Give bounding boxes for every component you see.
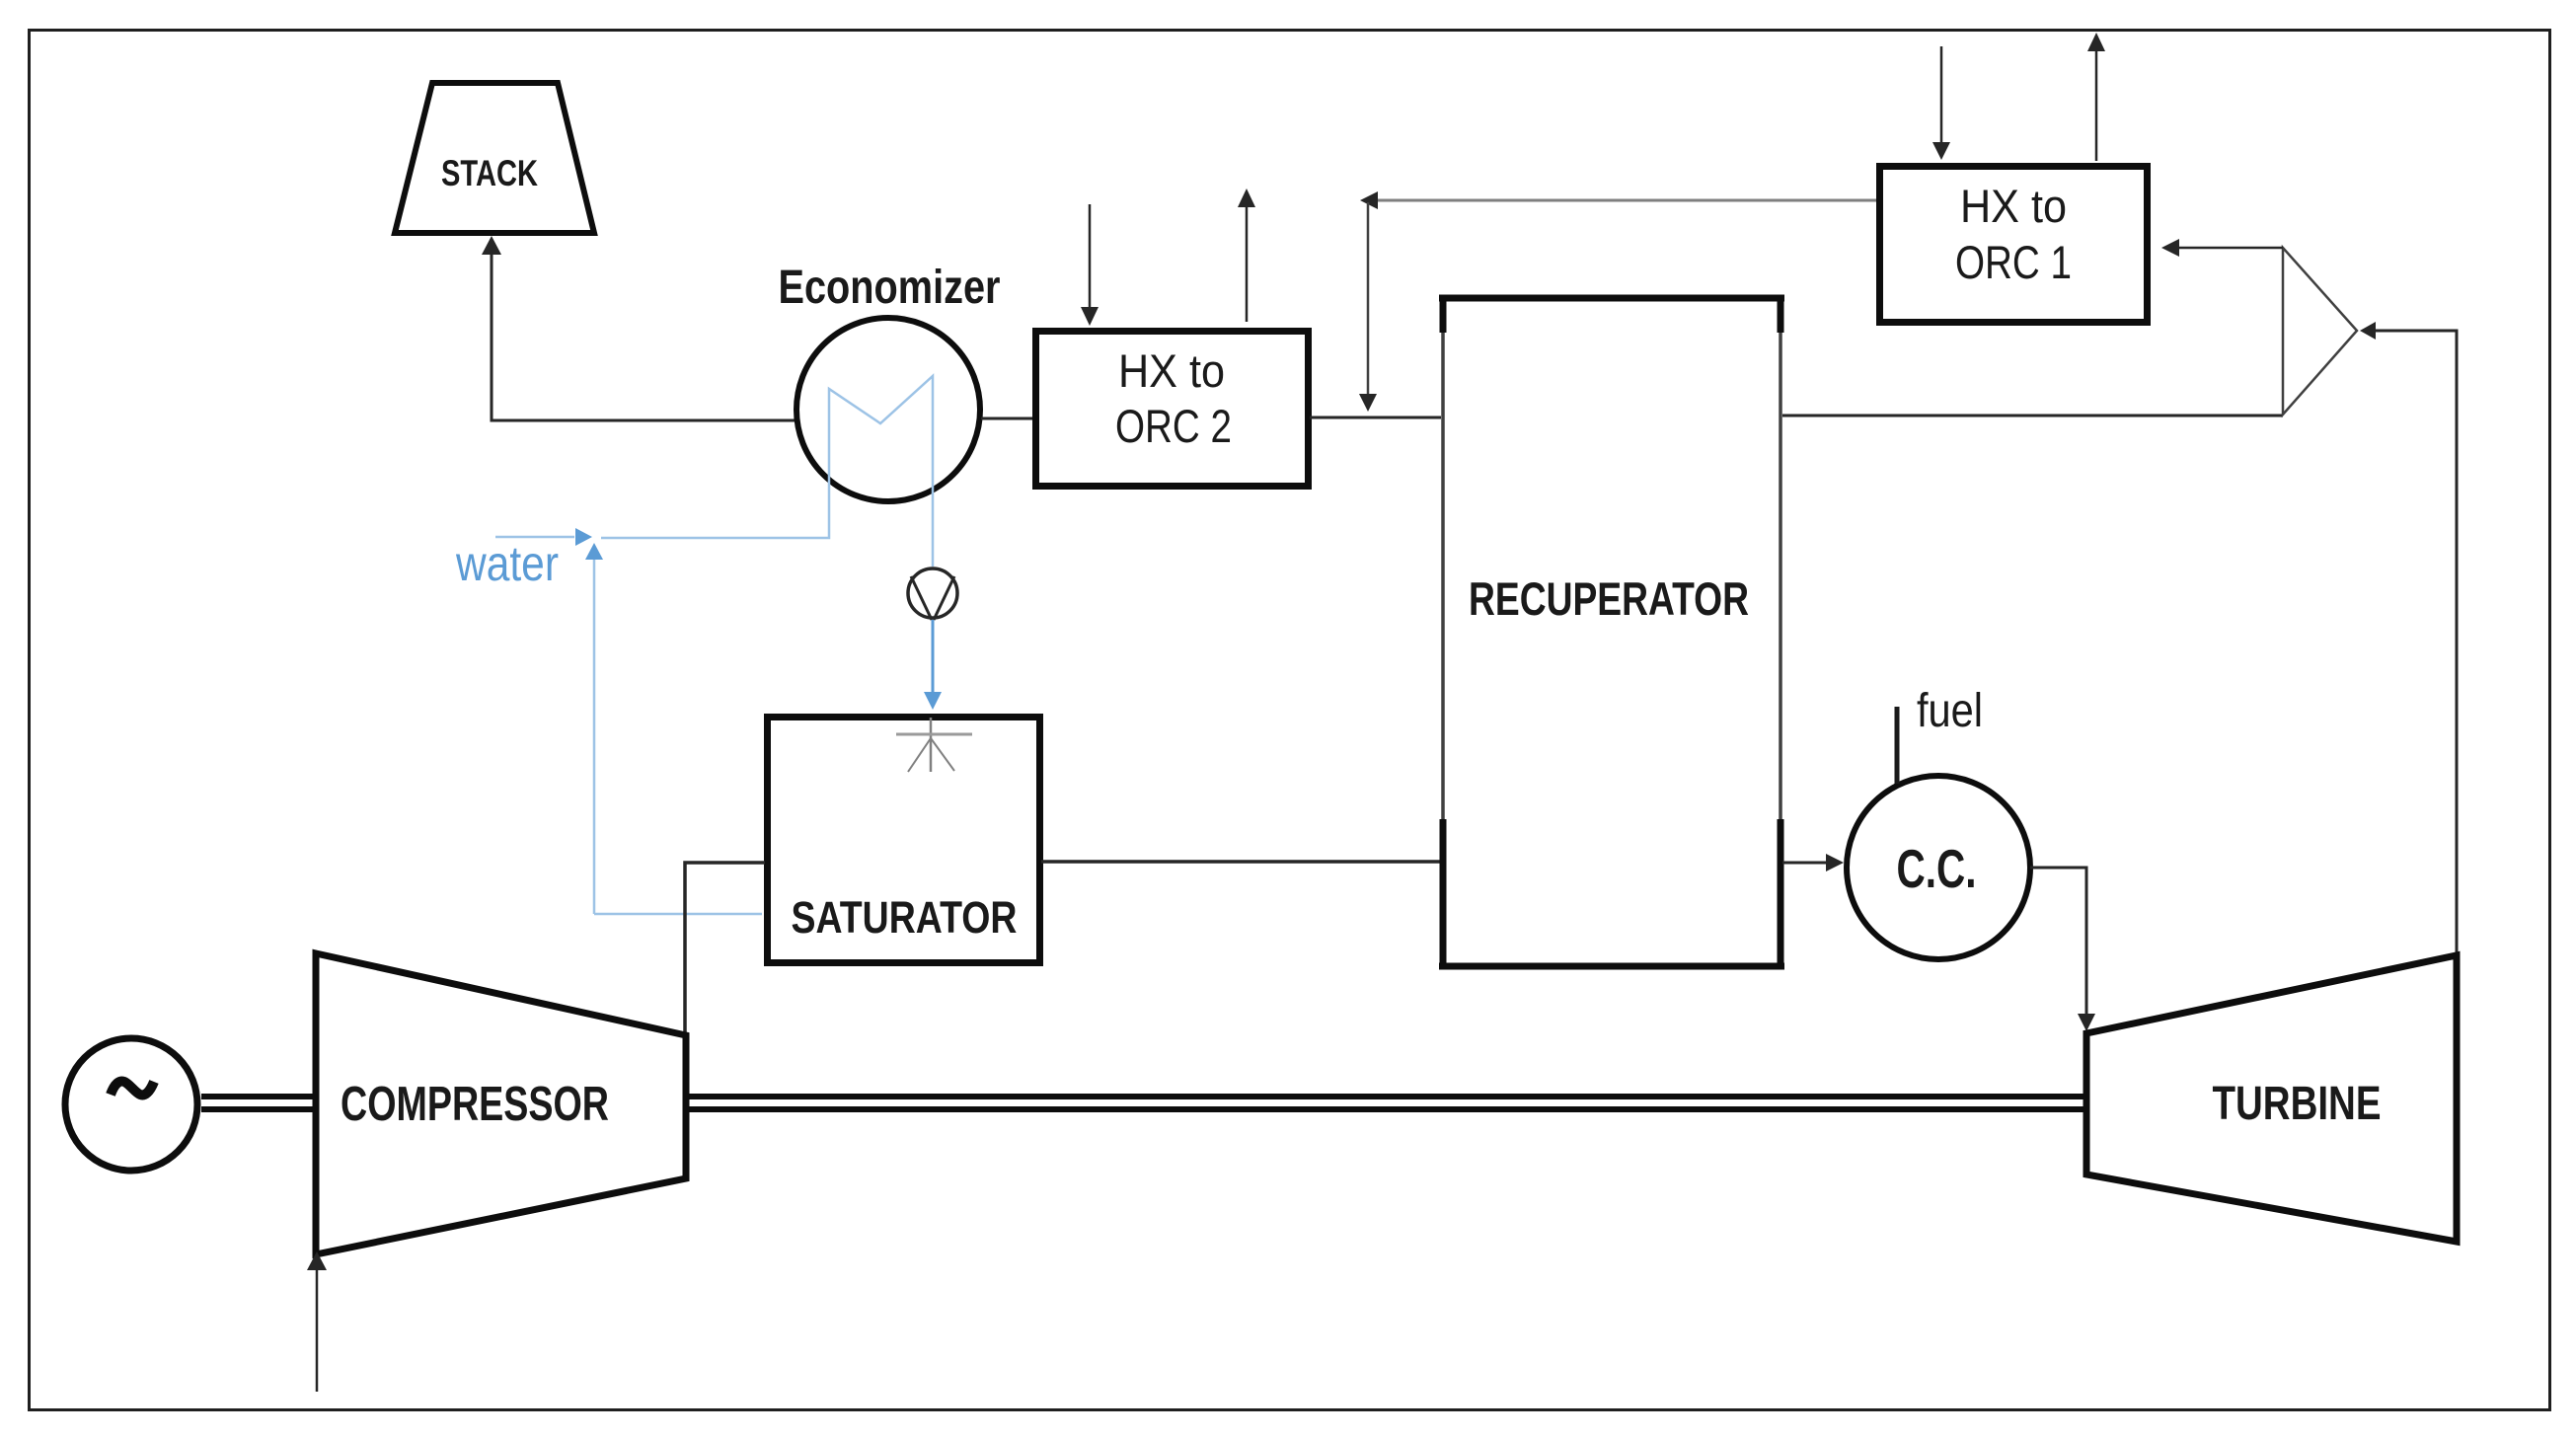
svg-text:SATURATOR: SATURATOR xyxy=(792,892,1018,943)
HX to ORC 2 (box) xyxy=(1036,332,1309,487)
arrow recuperator to C.C. xyxy=(1782,854,1844,871)
label fuel xyxy=(1917,685,1983,737)
turbine exhaust duct xyxy=(2360,322,2457,953)
arrow water inlet xyxy=(575,528,592,546)
generator (circle with ~) xyxy=(65,1038,197,1171)
wire C.C. to turbine xyxy=(2030,868,2095,1031)
arrow ORC1 cold in xyxy=(1932,46,1950,160)
arrow into stack xyxy=(482,236,501,255)
svg-text:STACK: STACK xyxy=(441,153,538,193)
compressor (trapezoid) xyxy=(316,953,686,1254)
label water xyxy=(455,536,559,591)
wire saturator to recuperator xyxy=(1041,860,1440,864)
spray nozzle xyxy=(896,718,972,772)
HX to ORC 1 (box) xyxy=(1880,167,2148,323)
water riser xyxy=(593,557,596,914)
stack (trapezoid) xyxy=(395,83,594,233)
turbine (trapezoid) xyxy=(2086,955,2457,1242)
svg-text:Economizer: Economizer xyxy=(779,262,1001,314)
pump outlet line xyxy=(932,620,935,693)
arrow into saturator spray xyxy=(924,692,942,710)
wire economizer to stack riser xyxy=(492,254,796,420)
wire compressor outlet to saturator xyxy=(685,863,765,1032)
shaft generator-compressor xyxy=(201,1097,318,1109)
air inlet arrow xyxy=(307,1251,327,1392)
wire recuperator to splitter xyxy=(1782,415,2283,417)
arrow up at riser top xyxy=(585,543,603,560)
water tube through economizer (light blue M) xyxy=(601,376,933,567)
C.C. combustion chamber (circle) xyxy=(1847,776,2030,959)
arrow left at corner xyxy=(1360,191,1378,209)
svg-text:ORC 1: ORC 1 xyxy=(1955,236,2072,288)
vertical drop from HX ORC 1 return xyxy=(1359,202,1377,412)
svg-text:COMPRESSOR: COMPRESSOR xyxy=(341,1078,609,1131)
svg-text:HX to: HX to xyxy=(1960,180,2067,232)
return line from HX ORC 1 (gray) xyxy=(1376,199,1878,202)
economizer (circle) xyxy=(779,262,1001,501)
splitter (triangle) xyxy=(2283,248,2357,415)
arrow ORC2 cold out xyxy=(1238,189,1255,322)
arrow ORC1 cold out xyxy=(2087,33,2105,161)
svg-text:RECUPERATOR: RECUPERATOR xyxy=(1469,572,1749,625)
svg-text:C.C.: C.C. xyxy=(1897,838,1977,899)
svg-text:ORC 2: ORC 2 xyxy=(1115,400,1232,452)
arrow ORC2 cold in xyxy=(1081,204,1099,326)
shaft compressor-turbine xyxy=(688,1097,2084,1109)
svg-text:TURBINE: TURBINE xyxy=(2213,1078,2382,1130)
fuel line xyxy=(1895,707,1900,784)
wire HX ORC 2 to recuperator xyxy=(1310,417,1441,419)
svg-text:water: water xyxy=(455,536,559,591)
recuperator (box) xyxy=(1439,295,1784,969)
wire splitter to HX ORC 1 xyxy=(2161,239,2283,257)
pump xyxy=(908,568,957,620)
svg-text:fuel: fuel xyxy=(1917,685,1983,737)
water return from saturator xyxy=(594,913,762,916)
saturator (box) xyxy=(768,718,1040,963)
svg-text:HX to: HX to xyxy=(1118,344,1225,397)
wire economizer to HX ORC 2 xyxy=(981,417,1034,420)
water inlet line xyxy=(495,536,574,539)
